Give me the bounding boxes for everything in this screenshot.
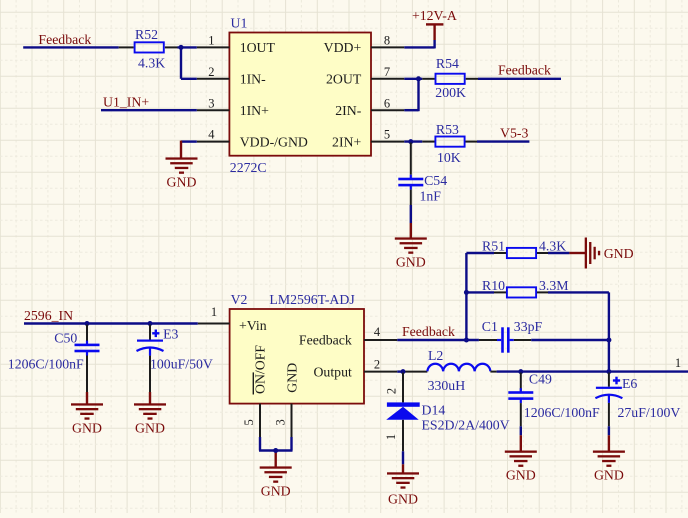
svg-text:2IN-: 2IN-	[335, 103, 361, 118]
svg-text:+12V-A: +12V-A	[412, 8, 457, 23]
svg-text:27uF/100V: 27uF/100V	[618, 405, 681, 420]
svg-text:3.3M: 3.3M	[539, 278, 569, 293]
svg-text:Feedback: Feedback	[402, 324, 455, 339]
svg-text:GND: GND	[388, 492, 418, 507]
junction at C49	[518, 369, 523, 374]
resistor R52	[119, 27, 178, 71]
regulator V2 body	[230, 309, 364, 404]
svg-text:GND: GND	[396, 254, 426, 269]
V2 designator	[231, 292, 248, 307]
resistor R10	[466, 278, 568, 298]
svg-text:GND: GND	[506, 468, 536, 483]
net label Feedback (V2)	[402, 324, 455, 339]
U1 pin 2	[197, 65, 230, 79]
off-sheet pin 1 label	[675, 356, 681, 370]
svg-text:1nF: 1nF	[420, 189, 442, 204]
svg-text:E3: E3	[163, 327, 178, 342]
wire R53 to V5-3	[477, 140, 529, 142]
wire C1 to output node	[531, 339, 609, 341]
ground GND below E3	[134, 403, 166, 435]
svg-text:1: 1	[675, 356, 681, 370]
net label Feedback (left)	[38, 32, 91, 47]
junction at pin 7	[416, 76, 421, 81]
svg-text:7: 7	[384, 65, 390, 79]
svg-text:VDD+: VDD+	[324, 40, 362, 55]
wire C49 to ground	[520, 426, 522, 450]
svg-text:2: 2	[374, 358, 380, 372]
net label U1_IN+	[103, 95, 149, 110]
U1 pin 8	[371, 34, 404, 48]
junction at E3	[148, 321, 153, 326]
wire R10 to output node	[548, 292, 609, 340]
svg-text:GND: GND	[261, 483, 291, 498]
V2 pin 1	[198, 305, 230, 324]
wire U1 pin 4 to ground	[181, 141, 197, 158]
power +12V-A	[412, 8, 457, 40]
svg-text:C54: C54	[424, 173, 447, 188]
svg-text:GND: GND	[167, 174, 197, 189]
svg-text:GND: GND	[594, 468, 624, 483]
svg-text:GND: GND	[604, 246, 634, 261]
svg-text:3: 3	[208, 96, 214, 110]
svg-text:L2: L2	[428, 348, 443, 363]
svg-text:C50: C50	[54, 331, 77, 346]
svg-text:R51: R51	[482, 239, 505, 254]
op-amp U1 body	[229, 33, 371, 156]
svg-text:2IN+: 2IN+	[332, 134, 361, 149]
power ground GND right of R51	[585, 238, 634, 269]
wire R51 to GND rail	[548, 252, 585, 254]
wire C54 to ground	[410, 205, 412, 238]
svg-text:100uF/50V: 100uF/50V	[150, 356, 213, 371]
U1 pin 3	[197, 96, 230, 110]
svg-text:4: 4	[374, 325, 381, 339]
svg-text:2: 2	[385, 388, 399, 394]
svg-text:1: 1	[211, 305, 217, 319]
wire E6 to ground	[608, 426, 610, 450]
svg-text:ON/OFF: ON/OFF	[252, 345, 267, 394]
svg-text:VDD-/GND: VDD-/GND	[240, 134, 308, 149]
capacitor C49	[508, 372, 600, 427]
ground GND below E6	[593, 451, 625, 483]
svg-text:V2: V2	[231, 292, 248, 307]
svg-text:C1: C1	[482, 319, 498, 334]
wire D14 to ground	[402, 420, 404, 473]
svg-text:R54: R54	[436, 56, 459, 71]
junction at R52 output	[179, 45, 184, 50]
svg-text:1IN-: 1IN-	[240, 72, 266, 87]
svg-text:GND: GND	[72, 420, 102, 435]
U1 designator	[231, 16, 248, 31]
svg-text:U1_IN+: U1_IN+	[103, 95, 149, 110]
U1 value 2272C	[230, 160, 267, 175]
svg-text:6: 6	[384, 96, 390, 110]
svg-text:C49: C49	[529, 372, 552, 387]
svg-text:E6: E6	[622, 376, 637, 391]
wire R54 to Feedback	[478, 78, 561, 80]
svg-text:2: 2	[208, 65, 214, 79]
capacitor C54	[398, 143, 447, 205]
wire Feedback to R52	[23, 46, 119, 48]
svg-text:Output: Output	[313, 364, 351, 379]
svg-text:Feedback: Feedback	[498, 62, 551, 77]
svg-text:D14: D14	[422, 403, 446, 418]
wire U1 pin 6 up to pin 7 net	[404, 79, 418, 111]
V2 value LM2596T-ADJ	[269, 292, 355, 307]
ground GND below C50	[71, 403, 103, 435]
capacitor C1	[479, 319, 543, 353]
svg-text:330uH: 330uH	[428, 378, 466, 393]
junction at C50	[85, 321, 90, 326]
wire divider vertical	[465, 253, 467, 340]
junction C1 output node	[606, 338, 611, 343]
wire V2 pins 5 and 3 to ground	[259, 437, 293, 467]
wire junction to U1 pin 2	[181, 47, 197, 78]
svg-text:5: 5	[242, 419, 256, 425]
U1 pin 4	[197, 128, 230, 142]
net label Feedback (top right)	[498, 62, 551, 77]
wire 2596_IN to V2 pin 1	[24, 322, 198, 324]
V2 pin 5	[242, 404, 260, 437]
junction below V2	[273, 448, 278, 453]
ground GND below C49	[505, 451, 537, 483]
svg-text:1OUT: 1OUT	[240, 40, 276, 55]
junction at E6	[606, 369, 611, 374]
ground GND at U1 pin 4	[166, 157, 198, 189]
U1 pin 5	[371, 128, 404, 142]
svg-text:4.3K: 4.3K	[539, 239, 566, 254]
wire V2 pin 2 to L2	[397, 370, 427, 372]
svg-text:33pF: 33pF	[514, 319, 543, 334]
capacitor E6	[595, 373, 680, 427]
junction at D14	[401, 369, 406, 374]
svg-text:V5-3: V5-3	[500, 125, 528, 140]
wire E3 to ground	[149, 392, 151, 404]
svg-text:R53: R53	[436, 122, 459, 137]
V2 pin 2	[364, 358, 397, 372]
capacitor E3	[137, 325, 213, 393]
svg-text:1IN+: 1IN+	[240, 103, 269, 118]
ground GND below D14	[387, 472, 419, 506]
U1 pin 7	[371, 65, 404, 79]
svg-text:1: 1	[208, 34, 214, 48]
svg-text:3: 3	[274, 419, 288, 425]
wire U1 pin 8 to +12V-A	[404, 40, 434, 48]
resistor R51	[466, 239, 566, 259]
ground GND below C54	[395, 237, 427, 269]
wire U1_IN+ to pin 3	[101, 109, 197, 111]
U1 pin 6	[371, 96, 404, 110]
junction feedback / divider	[464, 338, 469, 343]
V2 pin 4	[364, 325, 397, 340]
svg-text:2596_IN: 2596_IN	[24, 308, 73, 323]
svg-text:1206C/100nF: 1206C/100nF	[8, 356, 84, 371]
wire U1 pin 5 to R53	[404, 140, 422, 142]
svg-text:2OUT: 2OUT	[326, 72, 362, 87]
svg-text:R52: R52	[135, 27, 158, 42]
net label 2596_IN	[24, 308, 73, 323]
junction at pin 5	[408, 139, 413, 144]
resistor R53	[422, 122, 477, 165]
svg-text:1: 1	[384, 434, 398, 440]
svg-text:4: 4	[208, 128, 215, 142]
wire L2 to output right edge	[490, 371, 688, 373]
net label V5-3	[500, 125, 528, 140]
svg-text:+Vin: +Vin	[239, 318, 267, 333]
resistor R54	[422, 56, 478, 100]
U1 pin 1	[197, 34, 230, 48]
wire C50 to ground	[86, 392, 88, 404]
wire output node down	[608, 340, 610, 372]
svg-text:4.3K: 4.3K	[138, 56, 165, 71]
diode D14	[384, 373, 510, 441]
wire R52 to U1 pin 1	[178, 46, 197, 48]
svg-text:200K: 200K	[435, 85, 466, 100]
svg-text:10K: 10K	[437, 150, 461, 165]
junction at R10 branch	[464, 290, 469, 295]
svg-text:LM2596T-ADJ: LM2596T-ADJ	[269, 292, 355, 307]
wire U1 pin 7 to R54	[404, 78, 422, 80]
wire V2 pin 4 feedback line	[397, 339, 479, 341]
svg-text:1206C/100nF: 1206C/100nF	[524, 405, 600, 420]
V2 pin 3	[274, 404, 292, 437]
svg-text:ES2D/2A/400V: ES2D/2A/400V	[422, 418, 510, 433]
svg-text:Feedback: Feedback	[299, 333, 352, 348]
svg-text:Feedback: Feedback	[38, 32, 91, 47]
svg-text:U1: U1	[231, 16, 248, 31]
inductor L2	[427, 348, 490, 393]
svg-text:5: 5	[384, 128, 390, 142]
svg-text:GND: GND	[135, 420, 165, 435]
ground GND below V2	[260, 466, 292, 498]
svg-text:GND: GND	[285, 363, 300, 393]
capacitor C50	[8, 325, 100, 393]
svg-text:R10: R10	[482, 278, 505, 293]
svg-text:8: 8	[384, 34, 390, 48]
svg-text:2272C: 2272C	[230, 160, 267, 175]
